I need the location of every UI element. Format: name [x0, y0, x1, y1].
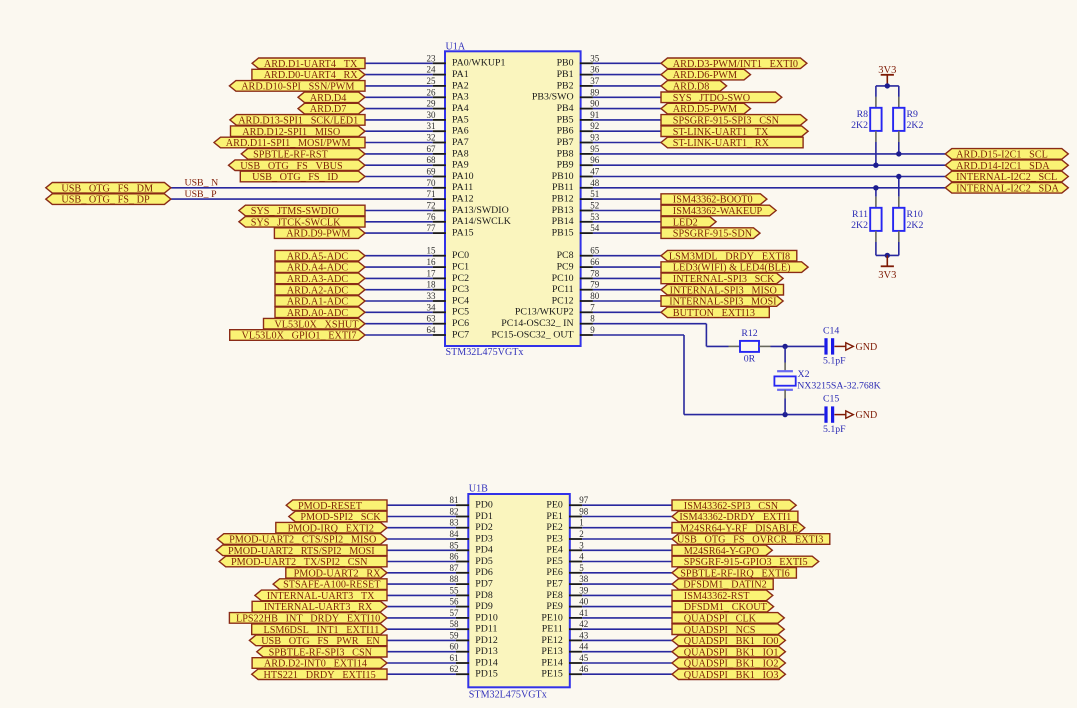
svg-text:93: 93 — [590, 133, 600, 143]
svg-text:ISM43362-WAKEUP: ISM43362-WAKEUP — [673, 206, 763, 217]
svg-text:36: 36 — [590, 65, 600, 75]
svg-text:PB1: PB1 — [557, 69, 574, 80]
svg-text:PB0: PB0 — [557, 58, 574, 69]
svg-text:65: 65 — [590, 246, 600, 256]
svg-text:PMOD-UART2_RX: PMOD-UART2_RX — [294, 568, 382, 579]
svg-text:PB14: PB14 — [552, 216, 574, 227]
svg-text:INTERNAL-SPI3_MISO: INTERNAL-SPI3_MISO — [670, 285, 777, 296]
svg-text:9: 9 — [590, 325, 595, 335]
svg-text:PA10: PA10 — [452, 171, 474, 182]
svg-text:18: 18 — [427, 280, 437, 290]
svg-text:89: 89 — [590, 87, 600, 97]
svg-text:PD2: PD2 — [475, 522, 493, 533]
svg-text:66: 66 — [590, 257, 600, 267]
svg-text:54: 54 — [590, 223, 600, 233]
svg-text:PC8: PC8 — [557, 250, 574, 261]
svg-text:PB7: PB7 — [557, 137, 574, 148]
svg-text:PE6: PE6 — [546, 567, 563, 578]
svg-text:GND: GND — [856, 410, 878, 421]
svg-text:42: 42 — [579, 619, 588, 629]
svg-text:98: 98 — [579, 507, 589, 517]
svg-text:SPSGRF-915-GPIO3_EXTI5: SPSGRF-915-GPIO3_EXTI5 — [684, 557, 808, 568]
svg-text:63: 63 — [427, 314, 437, 324]
svg-text:SYS_JTCK-SWCLK: SYS_JTCK-SWCLK — [251, 217, 341, 228]
svg-text:M24SR64-Y-RF_DISABLE: M24SR64-Y-RF_DISABLE — [680, 523, 798, 534]
svg-text:PA2: PA2 — [452, 80, 469, 91]
svg-text:24: 24 — [427, 65, 437, 75]
svg-text:PB8: PB8 — [557, 148, 574, 159]
svg-text:R9: R9 — [907, 109, 919, 120]
svg-text:48: 48 — [590, 178, 600, 188]
svg-text:USB_OTG_FS_PWR_EN: USB_OTG_FS_PWR_EN — [261, 636, 380, 647]
svg-text:71: 71 — [427, 189, 436, 199]
svg-text:PB5: PB5 — [557, 114, 574, 125]
svg-text:PB6: PB6 — [557, 126, 574, 137]
svg-text:PD7: PD7 — [475, 579, 493, 590]
svg-text:32: 32 — [427, 133, 436, 143]
svg-text:3V3: 3V3 — [878, 270, 896, 281]
svg-text:QUADSPI_NCS: QUADSPI_NCS — [684, 625, 756, 636]
svg-text:SPBTLE-RF-IRQ_EXTI6: SPBTLE-RF-IRQ_EXTI6 — [680, 568, 790, 579]
svg-text:31: 31 — [427, 121, 436, 131]
svg-text:PE4: PE4 — [546, 545, 563, 556]
svg-text:INTERNAL-I2C2_SCL: INTERNAL-I2C2_SCL — [956, 172, 1057, 183]
svg-text:ARD.D7: ARD.D7 — [310, 104, 347, 115]
svg-text:PB3/SWO: PB3/SWO — [532, 92, 574, 103]
svg-text:53: 53 — [590, 212, 600, 222]
svg-text:ARD.D1-UART4_TX: ARD.D1-UART4_TX — [264, 59, 358, 70]
svg-text:ARD.D12-SPI1_MISO: ARD.D12-SPI1_MISO — [242, 127, 340, 138]
svg-text:PD3: PD3 — [475, 533, 493, 544]
svg-text:PA3: PA3 — [452, 92, 469, 103]
svg-text:PE3: PE3 — [546, 533, 563, 544]
svg-text:57: 57 — [450, 608, 460, 618]
svg-text:PA12: PA12 — [452, 194, 474, 205]
svg-text:ARD.D4: ARD.D4 — [310, 93, 347, 104]
svg-text:R11: R11 — [852, 209, 868, 220]
svg-text:85: 85 — [450, 540, 460, 550]
svg-text:SPSGRF-915-SDN: SPSGRF-915-SDN — [673, 229, 753, 240]
svg-text:PE11: PE11 — [542, 624, 563, 635]
svg-text:PC6: PC6 — [452, 318, 469, 329]
svg-text:PC3: PC3 — [452, 284, 469, 295]
svg-text:ARD.D6-PWM: ARD.D6-PWM — [673, 70, 737, 81]
svg-text:LED3(WIFI) & LED4(BLE): LED3(WIFI) & LED4(BLE) — [673, 263, 791, 274]
svg-text:ARD.D0-UART4_RX: ARD.D0-UART4_RX — [264, 70, 359, 81]
svg-text:69: 69 — [427, 167, 437, 177]
svg-text:QUADSPI_BK1_IO3: QUADSPI_BK1_IO3 — [684, 670, 779, 681]
svg-text:45: 45 — [579, 653, 589, 663]
svg-text:70: 70 — [427, 178, 437, 188]
svg-text:2: 2 — [579, 529, 584, 539]
svg-text:80: 80 — [590, 291, 600, 301]
svg-text:82: 82 — [450, 507, 459, 517]
svg-text:PA9: PA9 — [452, 160, 469, 171]
svg-text:PMOD-UART2_CTS/SPI2_MISO: PMOD-UART2_CTS/SPI2_MISO — [229, 535, 376, 546]
svg-text:46: 46 — [579, 664, 589, 674]
svg-text:8: 8 — [590, 314, 595, 324]
svg-text:PA5: PA5 — [452, 114, 469, 125]
svg-text:PD15: PD15 — [475, 669, 498, 680]
svg-text:86: 86 — [450, 552, 460, 562]
svg-text:PMOD-UART2_RTS/SPI2_MOSI: PMOD-UART2_RTS/SPI2_MOSI — [228, 546, 375, 557]
svg-text:2K2: 2K2 — [851, 220, 868, 231]
svg-text:51: 51 — [590, 189, 599, 199]
svg-text:38: 38 — [579, 574, 589, 584]
svg-text:78: 78 — [590, 268, 600, 278]
svg-text:DFSDM1_CKOUT: DFSDM1_CKOUT — [684, 602, 768, 613]
svg-text:ARD.A3-ADC: ARD.A3-ADC — [287, 274, 349, 285]
svg-text:QUADSPI_BK1_IO0: QUADSPI_BK1_IO0 — [684, 636, 779, 647]
svg-text:56: 56 — [450, 597, 460, 607]
svg-text:92: 92 — [590, 121, 599, 131]
svg-text:R12: R12 — [741, 328, 757, 339]
svg-text:PD1: PD1 — [475, 511, 493, 522]
svg-text:INTERNAL-SPI3_SCK: INTERNAL-SPI3_SCK — [673, 274, 775, 285]
svg-text:PE14: PE14 — [541, 657, 562, 668]
svg-text:77: 77 — [427, 223, 437, 233]
svg-text:PMOD-IRQ_EXTI2: PMOD-IRQ_EXTI2 — [288, 523, 374, 534]
svg-text:M24SR64-Y-GPO: M24SR64-Y-GPO — [684, 546, 759, 557]
svg-text:90: 90 — [590, 99, 600, 109]
svg-text:PC11: PC11 — [552, 284, 574, 295]
svg-text:88: 88 — [450, 574, 460, 584]
svg-text:SYS_JTMS-SWDIO: SYS_JTMS-SWDIO — [251, 206, 339, 217]
svg-text:ISM43362-BOOT0: ISM43362-BOOT0 — [673, 195, 753, 206]
svg-text:SPBTLE-RF-SPI3_CSN: SPBTLE-RF-SPI3_CSN — [269, 647, 373, 658]
svg-text:58: 58 — [450, 619, 460, 629]
svg-text:GND: GND — [856, 342, 878, 353]
svg-text:PC13/WKUP2: PC13/WKUP2 — [515, 307, 574, 318]
svg-text:PB13: PB13 — [552, 205, 574, 216]
svg-text:ST-LINK-UART1_TX: ST-LINK-UART1_TX — [673, 127, 769, 138]
svg-text:0R: 0R — [744, 354, 756, 365]
svg-text:16: 16 — [427, 257, 437, 267]
svg-text:ARD.D11-SPI1_MOSI/PWM: ARD.D11-SPI1_MOSI/PWM — [226, 138, 351, 149]
svg-text:39: 39 — [579, 585, 589, 595]
svg-text:QUADSPI_BK1_IO2: QUADSPI_BK1_IO2 — [684, 659, 779, 670]
svg-text:INTERNAL-SPI3_MOSI: INTERNAL-SPI3_MOSI — [669, 297, 777, 308]
svg-text:QUADSPI_CLK: QUADSPI_CLK — [684, 614, 757, 625]
svg-text:HTS221_DRDY_EXTI15: HTS221_DRDY_EXTI15 — [264, 670, 376, 681]
svg-text:USB_P: USB_P — [185, 189, 218, 200]
svg-text:C14: C14 — [823, 326, 839, 337]
svg-text:PD6: PD6 — [475, 567, 493, 578]
svg-text:PC15-OSC32_OUT: PC15-OSC32_OUT — [491, 329, 573, 340]
svg-text:PD5: PD5 — [475, 556, 493, 567]
svg-text:STSAFE-A100-RESET: STSAFE-A100-RESET — [283, 580, 381, 591]
svg-text:97: 97 — [579, 495, 589, 505]
svg-text:95: 95 — [590, 144, 600, 154]
svg-text:PD4: PD4 — [475, 545, 493, 556]
svg-text:ARD.D9-PWM: ARD.D9-PWM — [286, 229, 350, 240]
svg-text:5.1pF: 5.1pF — [823, 356, 846, 367]
svg-text:ARD.D15-I2C1_SCL: ARD.D15-I2C1_SCL — [956, 150, 1048, 161]
svg-text:PE5: PE5 — [546, 556, 563, 567]
svg-text:PC12: PC12 — [552, 295, 574, 306]
svg-text:PMOD-UART2_TX/SPI2_CSN: PMOD-UART2_TX/SPI2_CSN — [231, 557, 368, 568]
svg-text:R8: R8 — [857, 109, 869, 120]
svg-text:PA8: PA8 — [452, 148, 469, 159]
svg-text:PMOD-RESET: PMOD-RESET — [298, 501, 363, 512]
svg-text:44: 44 — [579, 642, 589, 652]
svg-text:76: 76 — [427, 212, 437, 222]
svg-text:ARD.D5-PWM: ARD.D5-PWM — [673, 104, 737, 115]
svg-text:84: 84 — [450, 529, 460, 539]
svg-text:ISM43362-SPI3_CSN: ISM43362-SPI3_CSN — [684, 501, 779, 512]
svg-text:40: 40 — [579, 597, 589, 607]
svg-text:1: 1 — [579, 518, 584, 528]
svg-text:ARD.A4-ADC: ARD.A4-ADC — [287, 263, 349, 274]
svg-text:5: 5 — [579, 563, 584, 573]
svg-text:PA11: PA11 — [452, 182, 473, 193]
svg-text:PE12: PE12 — [541, 635, 562, 646]
svg-text:INTERNAL-UART3_TX: INTERNAL-UART3_TX — [267, 591, 375, 602]
svg-text:2K2: 2K2 — [851, 120, 868, 131]
svg-text:35: 35 — [590, 53, 600, 63]
svg-text:PE15: PE15 — [541, 669, 562, 680]
svg-text:72: 72 — [427, 201, 436, 211]
svg-text:NX3215SA-32.768K: NX3215SA-32.768K — [797, 381, 881, 392]
svg-text:USB_OTG_FS_VBUS: USB_OTG_FS_VBUS — [240, 161, 343, 172]
svg-text:83: 83 — [450, 518, 460, 528]
svg-text:PA0/WKUP1: PA0/WKUP1 — [452, 58, 505, 69]
svg-text:PE7: PE7 — [546, 579, 563, 590]
svg-text:43: 43 — [579, 630, 589, 640]
svg-text:PE10: PE10 — [541, 612, 562, 623]
svg-text:PD12: PD12 — [475, 635, 498, 646]
svg-text:PB12: PB12 — [552, 194, 574, 205]
svg-text:ST-LINK-UART1_RX: ST-LINK-UART1_RX — [673, 138, 770, 149]
svg-text:PE2: PE2 — [546, 522, 563, 533]
svg-text:VL53L0X_XSHUT: VL53L0X_XSHUT — [274, 319, 359, 330]
svg-text:PD9: PD9 — [475, 601, 493, 612]
svg-text:PMOD-SPI2_SCK: PMOD-SPI2_SCK — [300, 512, 381, 523]
svg-text:LSM3MDL_DRDY_EXTI8: LSM3MDL_DRDY_EXTI8 — [669, 251, 790, 262]
svg-text:68: 68 — [427, 155, 437, 165]
svg-text:ARD.A0-ADC: ARD.A0-ADC — [287, 308, 349, 319]
svg-text:USB_OTG_FS_OVRCR_EXTI3: USB_OTG_FS_OVRCR_EXTI3 — [677, 535, 823, 546]
svg-text:PA1: PA1 — [452, 69, 469, 80]
svg-text:64: 64 — [427, 325, 437, 335]
svg-text:67: 67 — [427, 144, 437, 154]
svg-text:34: 34 — [427, 302, 437, 312]
svg-text:PD0: PD0 — [475, 500, 493, 511]
svg-text:ISM43362-DRDY_EXTI1: ISM43362-DRDY_EXTI1 — [679, 512, 791, 523]
svg-text:41: 41 — [579, 608, 588, 618]
svg-text:PE8: PE8 — [546, 590, 563, 601]
svg-text:USB_OTG_FS_ID: USB_OTG_FS_ID — [252, 172, 338, 183]
svg-text:LSM6DSL_INT1_EXTI11: LSM6DSL_INT1_EXTI11 — [264, 625, 380, 636]
svg-text:PC0: PC0 — [452, 250, 469, 261]
svg-text:ARD.D8: ARD.D8 — [673, 82, 710, 93]
svg-text:PC4: PC4 — [452, 295, 469, 306]
svg-text:USB_OTG_FS_DP: USB_OTG_FS_DP — [61, 195, 150, 206]
svg-text:37: 37 — [590, 76, 600, 86]
svg-text:STM32L475VGTx: STM32L475VGTx — [469, 690, 547, 701]
svg-text:ISM43362-RST: ISM43362-RST — [684, 591, 750, 602]
svg-text:STM32L475VGTx: STM32L475VGTx — [446, 347, 524, 358]
svg-text:PC7: PC7 — [452, 329, 469, 340]
svg-text:81: 81 — [450, 495, 459, 505]
svg-text:U1B: U1B — [469, 483, 488, 494]
svg-text:R10: R10 — [907, 209, 923, 220]
svg-text:3: 3 — [579, 540, 584, 550]
svg-text:33: 33 — [427, 291, 437, 301]
svg-text:PA7: PA7 — [452, 137, 469, 148]
svg-text:55: 55 — [450, 585, 460, 595]
svg-text:4: 4 — [579, 552, 584, 562]
svg-text:PD8: PD8 — [475, 590, 493, 601]
svg-text:47: 47 — [590, 167, 600, 177]
svg-text:PE1: PE1 — [546, 511, 563, 522]
svg-text:PC5: PC5 — [452, 307, 469, 318]
svg-text:USB_OTG_FS_DM: USB_OTG_FS_DM — [61, 183, 153, 194]
svg-text:PB15: PB15 — [552, 228, 574, 239]
svg-text:61: 61 — [450, 653, 459, 663]
svg-text:LPS22HB_INT_DRDY_EXTI10: LPS22HB_INT_DRDY_EXTI10 — [236, 614, 380, 625]
svg-text:17: 17 — [427, 268, 437, 278]
svg-text:PA4: PA4 — [452, 103, 469, 114]
svg-text:87: 87 — [450, 563, 460, 573]
svg-text:PC9: PC9 — [557, 262, 574, 273]
svg-text:C15: C15 — [823, 394, 839, 405]
svg-text:ARD.D14-I2C1_SDA: ARD.D14-I2C1_SDA — [956, 161, 1050, 172]
svg-text:PC14-OSC32_IN: PC14-OSC32_IN — [501, 318, 573, 329]
svg-text:59: 59 — [450, 630, 460, 640]
svg-text:PE13: PE13 — [541, 646, 562, 657]
svg-text:PD13: PD13 — [475, 646, 498, 657]
svg-text:79: 79 — [590, 280, 600, 290]
svg-text:USB_N: USB_N — [185, 178, 219, 189]
svg-text:60: 60 — [450, 642, 460, 652]
svg-text:PB11: PB11 — [552, 182, 574, 193]
svg-text:2K2: 2K2 — [907, 220, 924, 231]
svg-text:30: 30 — [427, 110, 437, 120]
svg-text:INTERNAL-UART3_RX: INTERNAL-UART3_RX — [264, 602, 373, 613]
svg-text:91: 91 — [590, 110, 599, 120]
svg-text:SYS_JTDO-SWO: SYS_JTDO-SWO — [673, 93, 750, 104]
svg-text:PD11: PD11 — [475, 624, 497, 635]
svg-text:ARD.D3-PWM/INT1_EXTI0: ARD.D3-PWM/INT1_EXTI0 — [673, 59, 798, 70]
svg-text:PB4: PB4 — [557, 103, 574, 114]
svg-text:PC10: PC10 — [552, 273, 574, 284]
svg-text:62: 62 — [450, 664, 459, 674]
svg-text:INTERNAL-I2C2_SDA: INTERNAL-I2C2_SDA — [956, 183, 1059, 194]
svg-text:23: 23 — [427, 53, 437, 63]
svg-text:7: 7 — [590, 302, 595, 312]
svg-text:ARD.A5-ADC: ARD.A5-ADC — [287, 251, 349, 262]
svg-text:26: 26 — [427, 87, 437, 97]
svg-text:VL53L0X_GPIO1_EXTI7: VL53L0X_GPIO1_EXTI7 — [242, 331, 357, 342]
svg-text:ARD.D2-INT0_EXTI14: ARD.D2-INT0_EXTI14 — [264, 659, 367, 670]
svg-text:U1A: U1A — [446, 41, 466, 52]
svg-text:QUADSPI_BK1_IO1: QUADSPI_BK1_IO1 — [684, 647, 779, 658]
svg-text:PA14/SWCLK: PA14/SWCLK — [452, 216, 512, 227]
svg-text:DFSDM1_DATIN2: DFSDM1_DATIN2 — [683, 580, 767, 591]
svg-text:ARD.D10-SPI_SSN/PWM: ARD.D10-SPI_SSN/PWM — [241, 82, 354, 93]
svg-text:PA15: PA15 — [452, 228, 474, 239]
svg-text:PD14: PD14 — [475, 657, 498, 668]
svg-text:ARD.D13-SPI1_SCK/LED1: ARD.D13-SPI1_SCK/LED1 — [238, 116, 358, 127]
svg-text:SPBTLE-RF-RST: SPBTLE-RF-RST — [253, 150, 329, 161]
svg-text:PB2: PB2 — [557, 80, 574, 91]
svg-text:X2: X2 — [798, 369, 810, 380]
svg-text:15: 15 — [427, 246, 437, 256]
svg-text:PA6: PA6 — [452, 126, 469, 137]
svg-text:PC1: PC1 — [452, 262, 469, 273]
svg-text:ARD.A1-ADC: ARD.A1-ADC — [287, 297, 349, 308]
svg-text:PD10: PD10 — [475, 612, 498, 623]
svg-text:SPSGRF-915-SPI3_CSN: SPSGRF-915-SPI3_CSN — [673, 116, 780, 127]
svg-text:PE9: PE9 — [546, 601, 563, 612]
svg-text:96: 96 — [590, 155, 600, 165]
svg-text:52: 52 — [590, 201, 599, 211]
svg-text:2K2: 2K2 — [907, 120, 924, 131]
svg-text:PA13/SWDIO: PA13/SWDIO — [452, 205, 509, 216]
svg-text:25: 25 — [427, 76, 437, 86]
svg-text:5.1pF: 5.1pF — [823, 424, 846, 435]
svg-text:BUTTON_EXTI13: BUTTON_EXTI13 — [673, 308, 755, 319]
svg-text:29: 29 — [427, 99, 437, 109]
svg-text:LED2: LED2 — [673, 217, 698, 228]
svg-text:ARD.A2-ADC: ARD.A2-ADC — [287, 285, 349, 296]
svg-text:PB10: PB10 — [552, 171, 574, 182]
svg-text:PC2: PC2 — [452, 273, 469, 284]
svg-text:PE0: PE0 — [546, 500, 563, 511]
svg-text:PB9: PB9 — [557, 160, 574, 171]
